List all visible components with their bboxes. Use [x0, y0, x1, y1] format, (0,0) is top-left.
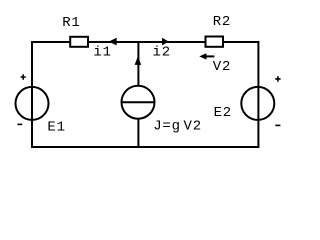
svg-text:E2: E2 [214, 105, 232, 121]
svg-text:R1: R1 [62, 15, 80, 31]
minus sign E2 [275, 124, 280, 126]
resistor R2 [206, 37, 224, 47]
plus sign E2 [275, 76, 280, 81]
current arrow i2 [162, 38, 169, 46]
wire center branch (current source) [137, 42, 139, 147]
wire outer loop: top node, left branch (E1), right branch (E2), bottom wire [32, 42, 258, 147]
voltage source E1 [16, 87, 49, 120]
svg-text:i1: i1 [93, 44, 111, 60]
current source J (arrow + circle with bar) [135, 57, 142, 65]
minus sign E1 [17, 123, 22, 125]
voltage arrow V2 [206, 55, 214, 57]
resistor R1 [70, 37, 88, 47]
svg-text:R2: R2 [213, 14, 231, 30]
voltage source E2 [241, 87, 274, 120]
svg-text:i2: i2 [153, 44, 171, 60]
svg-text:J=gV2: J=gV2 [153, 118, 202, 134]
svg-text:V2: V2 [213, 59, 231, 75]
svg-text:E1: E1 [47, 119, 65, 135]
current arrow i1 [109, 38, 117, 46]
plus sign E1 [21, 74, 26, 79]
